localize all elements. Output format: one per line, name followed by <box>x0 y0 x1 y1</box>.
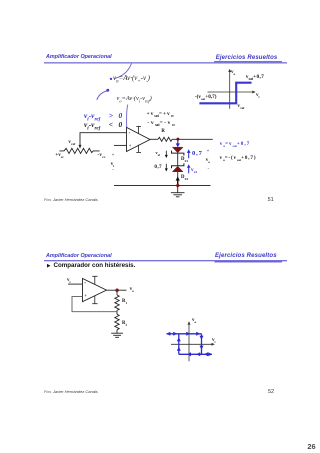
slide 1 title right <box>216 55 278 61</box>
result black <box>220 156 257 161</box>
wire op-amp noninverting input terminal <box>114 144 127 146</box>
resistor R2 body <box>115 314 119 329</box>
slide 2 footer <box>44 390 98 394</box>
wire resistor R to node A <box>172 138 178 140</box>
bullet heading <box>54 263 136 269</box>
graph 2 vo axis <box>188 321 191 361</box>
graph 2 vi axis <box>171 343 215 346</box>
hysteresis loop bottom segment <box>179 353 212 355</box>
graph 1 -(vsat+0,7) <box>195 95 217 100</box>
bullet arrow <box>47 264 51 268</box>
label R2 <box>122 322 127 327</box>
label R1 <box>122 300 127 305</box>
wire op-amp U2 output <box>107 289 127 291</box>
op-amp U2 negative supply pin <box>92 296 97 304</box>
potentiometer P1 wiper arrow <box>79 145 82 149</box>
label DZ1 <box>181 158 188 163</box>
condition 1 <box>84 112 122 120</box>
0,7 up arrow (blue) <box>187 149 191 158</box>
hysteresis loop left segment <box>178 334 180 355</box>
vi source minus <box>112 168 113 172</box>
op-amp U1 positive supply pin <box>136 126 141 133</box>
zener diode DZ2 <box>172 163 184 172</box>
op-amp U1 negative supply pin <box>136 145 141 153</box>
ground rail wire <box>114 185 211 187</box>
graph 1 vref <box>237 104 244 109</box>
annotation curve to formula 1 <box>110 64 132 81</box>
resistor R body <box>158 137 172 141</box>
output terminal minus <box>208 167 209 171</box>
hysteresis loop right segment <box>201 334 203 355</box>
wire vi to op-amp U2 inverting input <box>68 283 83 285</box>
formula 2 <box>117 96 152 102</box>
wire node A to output terminal <box>178 138 213 140</box>
slide 1 number <box>268 198 274 203</box>
ground rail junction dot <box>176 184 179 187</box>
resistor R1 body <box>115 295 119 310</box>
result blue <box>220 142 251 147</box>
op-amp U1 inverting input sign <box>129 131 131 136</box>
wire node B to resistor R1 <box>116 290 118 295</box>
op-amp U2 inverting sign <box>84 281 86 286</box>
vi source plus <box>112 153 115 157</box>
formula 1 <box>113 75 150 82</box>
op-amp U1 triangle <box>127 127 151 151</box>
ground symbol slide 2 <box>111 333 123 337</box>
slide 2 title right <box>215 253 277 259</box>
graph 1 vi axis <box>208 91 256 94</box>
loop direction arrows bottom <box>187 352 212 356</box>
vz1 down arrow <box>165 151 168 158</box>
wire DZ2 anode to ground rail <box>177 172 179 186</box>
graph 1 vo axis <box>228 69 231 109</box>
graph 1 vi label <box>256 93 259 98</box>
slide 2 header underline <box>44 261 287 262</box>
slide 1 title <box>46 55 112 60</box>
loop direction arrows left <box>177 337 181 351</box>
annotation curve to op-amp inverting input <box>127 105 128 128</box>
node A junction dot <box>176 138 179 141</box>
label vi slide 2 <box>67 278 70 283</box>
zener diode DZ1 <box>172 147 184 155</box>
potentiometer P1 body <box>59 148 99 153</box>
wire R1 to node C <box>116 310 118 314</box>
wire v_ref from wiper to op-amp inverting input <box>80 133 127 146</box>
hysteresis loop top segment <box>167 333 202 335</box>
graph 2 vi label <box>212 338 215 343</box>
condition 2 <box>84 121 122 129</box>
wire R2 to ground <box>116 330 118 334</box>
label vz2 blue <box>191 168 197 173</box>
graph 1 comparator transfer curve <box>199 83 251 104</box>
0,7 down arrow <box>165 164 168 172</box>
label vo slide 2 <box>130 287 134 292</box>
current arrow up from ground (black) <box>176 176 180 185</box>
ground symbol slide 1 <box>171 186 185 197</box>
slide 2 title <box>46 254 112 259</box>
op-amp U1 noninverting input sign <box>129 144 132 149</box>
vz2 up arrow (blue) <box>187 164 191 173</box>
graph 2 vo label <box>192 318 196 323</box>
page number <box>307 443 315 450</box>
slide 2 number <box>268 390 274 395</box>
wire DZ1 cathode to DZ2 cathode <box>177 153 179 166</box>
loop direction arrows right <box>200 336 204 350</box>
label DZ2 <box>181 176 188 181</box>
vi source label <box>111 162 114 167</box>
label -Vcc <box>97 153 105 158</box>
label vz1 <box>156 151 161 155</box>
output terminal vo <box>206 158 210 163</box>
op-amp U2 noninverting sign <box>84 294 87 299</box>
saturation note black <box>148 121 176 127</box>
graph 1 vo label <box>231 70 235 75</box>
slide 1 footer <box>44 198 98 202</box>
output terminal plus <box>207 149 210 153</box>
slide 1 header underline <box>44 62 287 63</box>
op-amp U2 triangle <box>83 279 107 302</box>
wire op-amp output to resistor R <box>150 138 158 140</box>
op-amp U2 positive supply pin <box>92 276 97 284</box>
label v_ref <box>68 140 75 145</box>
annotation swash to formula 2 <box>97 89 110 100</box>
label R <box>161 130 164 135</box>
loop direction arrows top <box>166 332 200 336</box>
label +Vcc <box>55 153 63 158</box>
feedback wire node C to noninverting input <box>72 297 117 312</box>
current arrow into zeners (blue) <box>176 141 180 148</box>
label 0,7 left <box>154 165 162 170</box>
graph 1 vsat+0,7 <box>246 75 264 80</box>
node B junction dot <box>115 289 118 292</box>
label 0,7 blue <box>192 151 203 158</box>
saturation note blue <box>147 112 175 118</box>
